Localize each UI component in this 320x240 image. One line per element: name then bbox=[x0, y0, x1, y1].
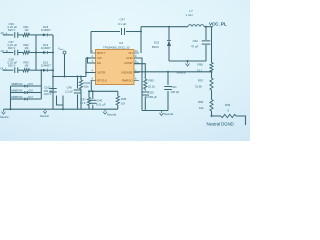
svg-text:C61: C61 bbox=[172, 85, 178, 89]
capacitor C40 bbox=[89, 100, 97, 103]
junction gnd link arrow bbox=[187, 60, 189, 62]
svg-text:R97: R97 bbox=[198, 79, 204, 83]
wire R38 lower bbox=[117, 105, 119, 109]
capacitor C37 bbox=[15, 50, 18, 56]
diode D15 MMBTA42 bbox=[24, 85, 27, 88]
wire neutral rail bbox=[4, 108, 118, 110]
wire boot to C47 bbox=[91, 30, 120, 32]
wire rtclk bus bbox=[89, 90, 118, 92]
wire C61 upper bbox=[167, 72, 169, 85]
wire bus A to diode D10 bbox=[36, 69, 43, 71]
junction C40 top bbox=[92, 90, 94, 92]
wire C37 to R92 bbox=[18, 51, 23, 53]
wire pin 1 stub bbox=[91, 52, 96, 54]
junction string left rail bbox=[10, 108, 12, 110]
wire boot riser bbox=[90, 32, 92, 54]
resistor R92 bbox=[23, 51, 30, 54]
svg-text:C47: C47 bbox=[120, 18, 126, 22]
svg-text:VCC_PL: VCC_PL bbox=[209, 21, 227, 26]
svg-text:B160: B160 bbox=[152, 45, 159, 49]
resistor R39 bbox=[221, 114, 236, 117]
wire ss branch bbox=[86, 71, 96, 73]
svg-text:RT/CLK: RT/CLK bbox=[97, 79, 107, 83]
diode D10 bbox=[43, 69, 47, 72]
wire R95 to C60 bbox=[144, 89, 146, 91]
wire R38 upper bbox=[117, 91, 119, 96]
svg-text:1M: 1M bbox=[25, 64, 30, 68]
wire L7 to VCC bbox=[204, 26, 213, 28]
svg-text:PWRGD: PWRGD bbox=[122, 79, 133, 83]
svg-text:51k: 51k bbox=[84, 85, 89, 89]
junction C102 rail bbox=[62, 108, 64, 110]
wire pin 4 stub bbox=[91, 72, 96, 74]
wire vin riser bbox=[85, 58, 87, 77]
wire D19 to bus B bbox=[47, 51, 53, 53]
svg-text:31.6: 31.6 bbox=[80, 101, 86, 105]
resistor R91 bbox=[23, 33, 30, 36]
capacitor C62 bbox=[202, 41, 211, 44]
wire string row D15 bbox=[11, 85, 25, 87]
wire C36 to R91 bbox=[18, 34, 23, 36]
resistor R99 bbox=[210, 100, 213, 112]
svg-text:100 V: 100 V bbox=[44, 92, 51, 96]
svg-text:10k: 10k bbox=[199, 106, 204, 110]
wire string left riser bbox=[9, 86, 11, 109]
svg-text:Neutral: Neutral bbox=[40, 114, 49, 118]
svg-text:630 V: 630 V bbox=[8, 64, 15, 68]
svg-text:2.2 µF: 2.2 µF bbox=[65, 90, 73, 94]
svg-text:C40: C40 bbox=[97, 99, 103, 103]
junction bus B row3 bbox=[52, 69, 54, 71]
junction C61 top bbox=[167, 71, 169, 73]
junction C62 tap bbox=[205, 26, 207, 28]
wire bus B vertical bbox=[52, 35, 54, 109]
wire R96 to R97 bbox=[210, 72, 212, 78]
wire C47 to PH riser bbox=[126, 30, 141, 32]
junction bus A row2 bbox=[35, 52, 37, 54]
wire en hook bbox=[88, 58, 96, 63]
wire C40 upper bbox=[92, 91, 94, 98]
junction R37 top bbox=[88, 90, 90, 92]
resistor R38 bbox=[116, 96, 119, 105]
svg-text:1N4007: 1N4007 bbox=[41, 28, 51, 32]
wire pin 8 stub bbox=[134, 62, 139, 64]
svg-text:COMP: COMP bbox=[124, 61, 133, 65]
wire pin 7 stub bbox=[134, 72, 139, 74]
junction boot at PH riser bbox=[140, 31, 142, 33]
wire bus A to diode D18 bbox=[36, 34, 43, 36]
wire R37 upper bbox=[88, 91, 90, 97]
wire R92 to bus A bbox=[30, 51, 37, 53]
wire pin 3 stub bbox=[91, 62, 96, 64]
ground neutral comp bbox=[160, 111, 164, 116]
svg-text:VIN: VIN bbox=[97, 56, 102, 60]
svg-text:MMBTA42: MMBTA42 bbox=[12, 83, 24, 86]
wire D10 to bus B bbox=[47, 69, 53, 71]
svg-text:0.1 µF: 0.1 µF bbox=[118, 22, 126, 26]
wire chain riser bbox=[210, 27, 212, 63]
wire C60 lower bbox=[144, 97, 146, 111]
resistor R93 bbox=[23, 69, 30, 72]
svg-text:0.056 µF: 0.056 µF bbox=[146, 95, 157, 99]
wire C62 lower bbox=[205, 45, 207, 61]
wire DL_L row bbox=[3, 69, 14, 71]
capacitor C36 bbox=[15, 32, 18, 38]
svg-text:D17: D17 bbox=[29, 96, 34, 99]
svg-text:R96: R96 bbox=[198, 63, 204, 67]
wire pin 2 stub bbox=[91, 57, 96, 59]
resistor R95 bbox=[144, 79, 147, 89]
svg-text:D16: D16 bbox=[29, 90, 34, 93]
wire string right riser bbox=[40, 70, 42, 99]
svg-text:630 V: 630 V bbox=[8, 28, 15, 32]
wire R37 lower bbox=[88, 106, 90, 110]
wire rect rail bbox=[53, 75, 86, 77]
wire rtclk riser bbox=[90, 81, 92, 92]
svg-text:Neutral: Neutral bbox=[177, 71, 186, 75]
resistor R96 bbox=[210, 63, 213, 72]
wire R97 to R99 bbox=[210, 90, 212, 100]
svg-text:MMBTA42: MMBTA42 bbox=[12, 90, 24, 93]
svg-text:R39: R39 bbox=[225, 103, 231, 107]
op-amp U3 TPS54060 regulator body bbox=[96, 50, 135, 85]
wire pin 10 stub bbox=[134, 52, 139, 54]
svg-text:SS/TR: SS/TR bbox=[97, 71, 105, 75]
junction C48 tap bbox=[77, 76, 79, 78]
svg-text:1N4007: 1N4007 bbox=[41, 46, 51, 50]
svg-text:100 pF: 100 pF bbox=[171, 90, 180, 94]
wire C48 lower bbox=[76, 95, 78, 110]
svg-text:47 µF: 47 µF bbox=[191, 45, 199, 49]
wire to R39 bbox=[212, 115, 222, 117]
wire D18 to bus B bbox=[47, 34, 53, 36]
svg-text:Neutral: Neutral bbox=[0, 115, 9, 119]
svg-text:D15: D15 bbox=[29, 83, 34, 86]
junction D23 top bbox=[168, 26, 170, 28]
junction bus B rect rail bbox=[52, 76, 54, 78]
svg-text:630 V: 630 V bbox=[8, 46, 15, 50]
svg-text:GND: GND bbox=[126, 56, 132, 60]
diode D17 MMBTA42 bbox=[24, 98, 27, 101]
inductor L7 bbox=[188, 25, 204, 27]
svg-text:1 mH: 1 mH bbox=[186, 13, 193, 17]
svg-text:31.6k: 31.6k bbox=[195, 85, 202, 89]
svg-text:1N4007: 1N4007 bbox=[41, 64, 51, 68]
svg-text:TPS54060_DGQ_10: TPS54060_DGQ_10 bbox=[103, 45, 130, 49]
svg-text:C62: C62 bbox=[193, 39, 199, 43]
wire string row D17 bbox=[11, 98, 25, 100]
wire gnd pin bbox=[134, 58, 142, 111]
junction vbatt tap bbox=[64, 76, 66, 78]
svg-text:C48: C48 bbox=[67, 86, 73, 90]
junction vsense tap bbox=[211, 71, 213, 73]
svg-text:R38: R38 bbox=[121, 97, 127, 101]
wire R39 out bbox=[236, 116, 246, 125]
wire bus A to diode D19 bbox=[36, 51, 43, 53]
diode D23 B160 bbox=[167, 41, 171, 47]
wire pin 6 stub bbox=[134, 80, 139, 82]
junction vin branch bbox=[85, 72, 87, 74]
svg-text:VSENSE: VSENSE bbox=[121, 71, 132, 75]
wire vin bbox=[86, 57, 96, 59]
wire gnd link bbox=[169, 60, 206, 62]
capacitor C60 bbox=[142, 92, 150, 95]
wire R99 to junction bbox=[210, 111, 212, 116]
wire R102 top bbox=[80, 77, 82, 81]
wire D15 to right riser bbox=[27, 85, 41, 87]
svg-text:L7: L7 bbox=[190, 9, 194, 13]
svg-text:22.1k: 22.1k bbox=[148, 85, 155, 89]
wire C62 upper bbox=[205, 27, 207, 40]
wire AC_N row bbox=[3, 51, 14, 53]
junction string top bbox=[40, 69, 42, 71]
wire C40 lower bbox=[92, 105, 94, 109]
svg-text:Neutral: Neutral bbox=[164, 112, 173, 116]
ground neutral busB bbox=[43, 109, 47, 113]
svg-text:1M: 1M bbox=[25, 28, 30, 32]
junction chain bottom bbox=[211, 115, 213, 117]
wire D16 to right riser bbox=[27, 91, 41, 93]
svg-text:Neutral DGND: Neutral DGND bbox=[207, 122, 234, 127]
wire D23 riser top bbox=[168, 27, 170, 41]
wire AC_L row bbox=[3, 34, 14, 36]
wire R91 to bus A bbox=[30, 34, 37, 36]
svg-text:Neutral: Neutral bbox=[107, 113, 116, 117]
wire string row D16 bbox=[11, 91, 25, 93]
resistor R37 bbox=[87, 98, 90, 106]
wire D17 to right riser bbox=[27, 98, 41, 100]
diode D19 bbox=[43, 51, 47, 54]
ground neutral link bbox=[186, 61, 190, 66]
svg-text:MMBTA42: MMBTA42 bbox=[12, 96, 24, 99]
wire vbatt stub bbox=[63, 54, 65, 77]
wire vsense bbox=[134, 71, 212, 73]
svg-text:D23: D23 bbox=[154, 40, 160, 44]
wire C61 lower bbox=[167, 91, 169, 111]
node V_batt terminal bbox=[63, 51, 66, 54]
capacitor C48 bbox=[74, 90, 82, 93]
svg-text:PH: PH bbox=[129, 51, 133, 55]
ground neutral left bbox=[2, 109, 6, 114]
junction R102 tap bbox=[80, 76, 82, 78]
wire R102 bottom bbox=[80, 89, 82, 109]
wire C38 to R93 bbox=[18, 69, 23, 71]
svg-text:BOOT: BOOT bbox=[97, 51, 105, 55]
svg-text:R95: R95 bbox=[149, 79, 155, 83]
wire top rail bbox=[141, 26, 188, 28]
capacitor C47 bbox=[122, 28, 125, 35]
svg-text:1M: 1M bbox=[121, 102, 126, 106]
svg-text:0.01 µF: 0.01 µF bbox=[96, 103, 106, 107]
capacitor C61 bbox=[164, 87, 172, 90]
svg-text:C60: C60 bbox=[149, 91, 155, 95]
capacitor C102 body outline bbox=[57, 96, 64, 106]
wire comp rail bbox=[142, 109, 168, 111]
diode D18 bbox=[43, 33, 47, 36]
resistor R102 bbox=[79, 80, 82, 89]
wire PH riser bbox=[140, 27, 142, 53]
wire D23 riser bottom bbox=[168, 46, 170, 61]
junction en tap bbox=[87, 57, 89, 59]
wire C48 upper bbox=[76, 77, 78, 89]
svg-text:U3: U3 bbox=[119, 41, 123, 45]
svg-text:R99: R99 bbox=[198, 100, 204, 104]
diode D16 MMBTA42 bbox=[24, 91, 27, 94]
ground neutral center bbox=[103, 109, 107, 114]
wire bus A vertical bbox=[35, 35, 37, 70]
junction bus B row2 bbox=[52, 52, 54, 54]
wire pin 5 stub bbox=[91, 80, 96, 82]
capacitor C38 bbox=[15, 67, 18, 73]
svg-text:EN: EN bbox=[97, 61, 101, 65]
wire comp pin bbox=[134, 64, 145, 79]
wire pin 9 stub bbox=[134, 57, 139, 59]
capacitor C102 bbox=[49, 89, 57, 92]
resistor R97 bbox=[210, 78, 213, 90]
svg-text:1M: 1M bbox=[25, 46, 30, 50]
wire C102 body to rail bbox=[62, 105, 64, 109]
wire R93 to bus A bbox=[30, 69, 37, 71]
